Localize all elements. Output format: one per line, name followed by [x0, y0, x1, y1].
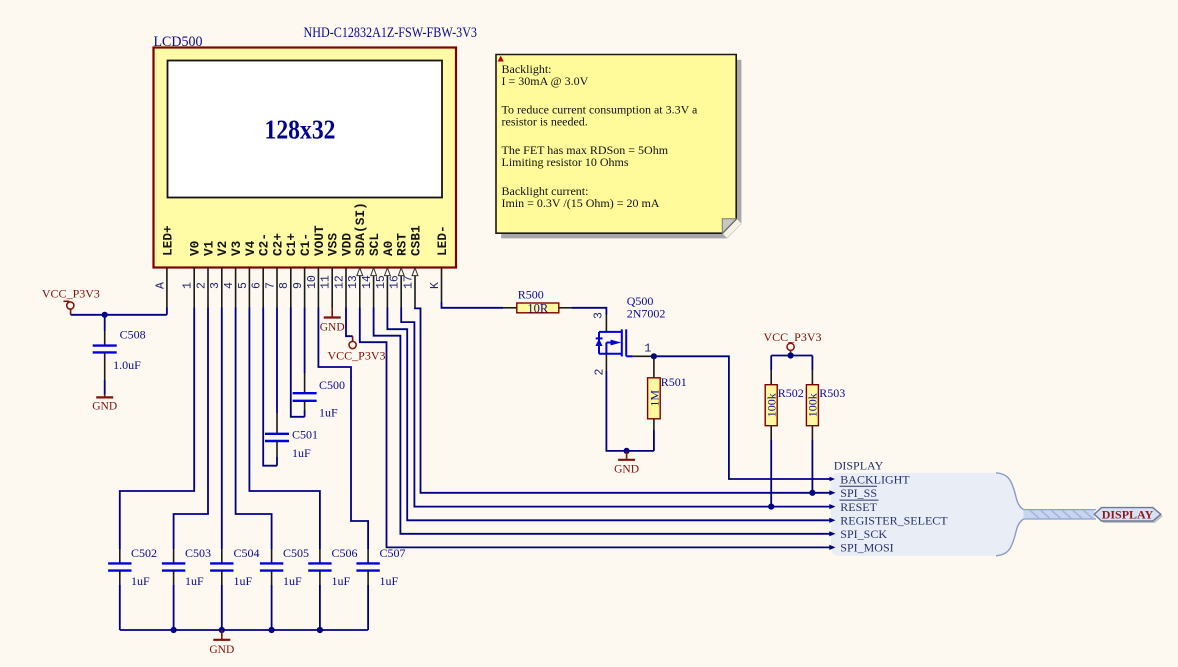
- svg-text:1uF: 1uF: [131, 574, 150, 588]
- pin K LED-: [429, 225, 450, 302]
- harness entry SPI_SCK: [829, 527, 887, 541]
- wire RST to RESET: [401, 308, 830, 507]
- svg-text:GND: GND: [614, 464, 639, 476]
- node R502 RESET junction: [768, 504, 774, 510]
- svg-text:10R: 10R: [527, 302, 549, 316]
- svg-text:C504: C504: [234, 546, 260, 560]
- svg-text:6: 6: [251, 282, 264, 289]
- ground GND bus: [209, 630, 234, 656]
- note N1 backlight text: [496, 55, 741, 239]
- wire CSB1 to SPI_SS: [415, 308, 830, 493]
- pin A LED+: [154, 225, 175, 308]
- capacitor C501: [265, 428, 318, 461]
- resistor R500: [503, 287, 571, 315]
- wire V2 to C504: [221, 308, 223, 550]
- capacitor C506: [308, 546, 357, 630]
- svg-text:A: A: [154, 282, 167, 289]
- svg-text:C1-: C1-: [298, 233, 313, 256]
- svg-text:RESET: RESET: [840, 500, 877, 514]
- svg-text:10: 10: [306, 275, 319, 289]
- wire C508 bottom: [104, 352, 106, 394]
- svg-text:SPI_SCK: SPI_SCK: [840, 527, 887, 541]
- capacitor C503: [162, 546, 211, 630]
- svg-text:1uF: 1uF: [185, 574, 204, 588]
- node gate junction 1: [651, 353, 657, 359]
- wire C2- to C501 bottom: [263, 308, 277, 466]
- capacitor C507: [356, 546, 405, 630]
- svg-text:SDA(SI): SDA(SI): [353, 202, 368, 256]
- power VCC_P3V3 at R502 R503: [764, 330, 822, 356]
- svg-text:resistor is needed.: resistor is needed.: [502, 115, 588, 129]
- svg-text:C2-: C2-: [257, 233, 272, 256]
- svg-text:13: 13: [347, 275, 360, 289]
- svg-text:1uF: 1uF: [283, 574, 302, 588]
- svg-text:C1+: C1+: [284, 233, 299, 256]
- svg-text:C508: C508: [120, 327, 146, 341]
- svg-text:3: 3: [209, 282, 222, 289]
- svg-text:1uF: 1uF: [292, 446, 311, 460]
- capacitor C508: [93, 327, 146, 372]
- svg-text:100k: 100k: [764, 393, 778, 417]
- svg-text:VCC_P3V3: VCC_P3V3: [328, 349, 386, 363]
- harness entry REGISTER_SELECT: [829, 514, 948, 528]
- svg-text:1uF: 1uF: [380, 574, 399, 588]
- svg-text:15: 15: [375, 275, 388, 289]
- svg-text:16: 16: [389, 275, 402, 289]
- wire VCC to R502 R503 tops: [771, 355, 812, 357]
- svg-text:C503: C503: [185, 546, 211, 560]
- harness connector DISPLAY shadow: [1096, 510, 1163, 523]
- wire gate to BACKLIGHT: [654, 356, 830, 479]
- svg-text:1uF: 1uF: [332, 574, 351, 588]
- svg-text:GND: GND: [92, 401, 117, 413]
- svg-text:C505: C505: [283, 546, 309, 560]
- node VCC junction: [788, 352, 794, 358]
- ground GND Q500: [614, 451, 639, 476]
- wire C2+ to C501 top: [276, 308, 278, 434]
- svg-text:LCD500: LCD500: [154, 34, 203, 50]
- note N1 shadow: [501, 60, 741, 239]
- svg-text:VOUT: VOUT: [312, 225, 327, 256]
- pin 1 V0: [182, 241, 203, 308]
- wire VOUT to C507: [318, 308, 368, 550]
- svg-text:CSB1: CSB1: [408, 225, 423, 256]
- power VCC_P3V3 left: [42, 286, 100, 315]
- svg-text:128x32: 128x32: [265, 115, 336, 145]
- pin 2 V1: [195, 240, 216, 307]
- svg-text:C502: C502: [131, 546, 157, 560]
- pin 13 SDA(SI) with input arrow: [347, 202, 368, 307]
- svg-text:R503: R503: [819, 386, 845, 400]
- svg-text:V2: V2: [215, 241, 230, 256]
- wire ground bus: [120, 629, 368, 631]
- wire C1+ to C500 bottom: [291, 308, 305, 417]
- svg-text:C2+: C2+: [270, 233, 285, 256]
- svg-text:GND: GND: [209, 644, 234, 656]
- svg-text:C507: C507: [380, 546, 406, 560]
- node junction C508/VCC: [102, 312, 108, 318]
- svg-text:2N7002: 2N7002: [627, 307, 666, 321]
- svg-text:R500: R500: [518, 287, 544, 301]
- wire R500 to Q500 drain: [571, 308, 606, 315]
- svg-text:12: 12: [333, 275, 346, 289]
- wire SDA(SI) to SPI_MOSI: [360, 308, 830, 548]
- pin 12 VDD: [333, 233, 354, 308]
- pin 14 SCL with input arrow: [361, 233, 382, 308]
- wire pin A stub: [166, 308, 168, 315]
- svg-text:V4: V4: [243, 240, 258, 256]
- pin 6 C2-: [251, 233, 272, 308]
- wire Q500 source to GND: [606, 371, 654, 451]
- pin 10 VOUT: [306, 225, 327, 308]
- svg-text:NHD-C12832A1Z-FSW-FBW-3V3: NHD-C12832A1Z-FSW-FBW-3V3: [304, 25, 478, 41]
- svg-text:VCC_P3V3: VCC_P3V3: [42, 286, 100, 300]
- capacitor C504: [210, 546, 259, 630]
- svg-text:V3: V3: [229, 240, 244, 256]
- svg-text:7: 7: [264, 282, 277, 289]
- pin 4 V3: [223, 240, 244, 307]
- wire VDD to VCC: [346, 308, 353, 337]
- node bus C504: [219, 627, 225, 633]
- pin 7 C2+: [264, 233, 285, 308]
- wire V3 to C505: [236, 308, 272, 550]
- resistor R503: [806, 356, 846, 493]
- svg-text:17: 17: [402, 275, 415, 289]
- svg-text:V0: V0: [188, 241, 203, 256]
- resistor R501: [647, 356, 687, 451]
- node R503 SPI_SS junction: [809, 490, 815, 496]
- wire A0 to REGISTER_SELECT: [387, 308, 830, 521]
- svg-text:SPI_SS: SPI_SS: [840, 486, 877, 500]
- harness entry SPI_SS: [829, 486, 878, 500]
- pin 17 CSB1 with input arrow: [402, 225, 423, 308]
- pin 15 A0 with input arrow: [375, 241, 396, 308]
- svg-text:A0: A0: [381, 241, 396, 256]
- pin 9 C1-: [292, 233, 313, 308]
- capacitor C502: [108, 546, 157, 630]
- wire C508 top: [104, 315, 106, 331]
- svg-text:1: 1: [182, 282, 195, 289]
- svg-text:RST: RST: [395, 233, 410, 256]
- svg-text:Imin = 0.3V /(15 Ohm) = 20 mA: Imin = 0.3V /(15 Ohm) = 20 mA: [502, 196, 660, 210]
- svg-text:GND: GND: [320, 322, 345, 334]
- svg-text:1uF: 1uF: [319, 406, 338, 420]
- harness connector DISPLAY: [1094, 508, 1161, 522]
- svg-text:14: 14: [361, 275, 374, 289]
- node bus C506: [317, 627, 323, 633]
- wire V1 to C503: [174, 308, 208, 550]
- svg-text:SCL: SCL: [367, 233, 382, 256]
- svg-text:1: 1: [644, 343, 651, 356]
- wire K to R500: [442, 302, 504, 308]
- transistor Q500 2N7002: [593, 294, 666, 376]
- wire V4 to C506: [249, 308, 320, 550]
- svg-text:1uF: 1uF: [234, 574, 253, 588]
- svg-text:2: 2: [195, 282, 208, 289]
- capacitor C500: [293, 378, 345, 420]
- svg-text:R502: R502: [778, 386, 804, 400]
- svg-text:C500: C500: [319, 378, 345, 392]
- svg-text:9: 9: [292, 282, 305, 289]
- svg-text:C501: C501: [292, 428, 318, 442]
- wire C501 bottom stub: [276, 441, 278, 466]
- harness cable band: [1024, 510, 1097, 519]
- svg-text:5: 5: [237, 282, 250, 289]
- svg-text:K: K: [429, 282, 442, 289]
- svg-text:3: 3: [593, 312, 606, 319]
- svg-text:BACKLIGHT: BACKLIGHT: [840, 472, 910, 486]
- svg-text:DISPLAY: DISPLAY: [834, 459, 884, 473]
- svg-text:1.0uF: 1.0uF: [113, 358, 141, 372]
- ground GND C508: [92, 395, 117, 413]
- svg-text:2: 2: [594, 369, 607, 376]
- node source junction: [624, 448, 630, 454]
- svg-text:C506: C506: [332, 546, 358, 560]
- svg-text:1M: 1M: [647, 390, 661, 407]
- svg-text:8: 8: [278, 282, 291, 289]
- svg-text:11: 11: [320, 275, 333, 289]
- svg-text:100k: 100k: [806, 393, 820, 417]
- capacitor C505: [260, 546, 309, 630]
- pin 8 C1+: [278, 233, 299, 308]
- svg-text:SPI_MOSI: SPI_MOSI: [840, 541, 893, 555]
- harness entry RESET: [829, 500, 877, 514]
- wire C1- to C500 top: [304, 308, 306, 394]
- pin 3 V2: [209, 241, 230, 308]
- svg-text:R501: R501: [661, 375, 687, 389]
- resistor R502: [764, 356, 804, 507]
- svg-text:4: 4: [223, 282, 236, 289]
- svg-text:VCC_P3V3: VCC_P3V3: [764, 330, 822, 344]
- node bus C503: [171, 627, 177, 633]
- wire C500 bottom stub: [304, 401, 306, 417]
- wire V0 to C502: [120, 308, 194, 550]
- harness entry SPI_MOSI: [829, 541, 893, 555]
- pin 11 VSS: [320, 233, 341, 308]
- svg-text:DISPLAY: DISPLAY: [1102, 508, 1154, 522]
- LCD500 component body: [154, 48, 457, 268]
- wire SCL to SPI_SCK: [374, 308, 830, 534]
- pin 16 RST with input arrow: [389, 233, 410, 308]
- svg-text:V1: V1: [201, 240, 216, 256]
- svg-text:Limiting resistor 10 Ohms: Limiting resistor 10 Ohms: [502, 155, 629, 169]
- pin 5 V4: [237, 240, 258, 307]
- svg-text:VDD: VDD: [339, 233, 354, 256]
- harness container DISPLAY: [831, 473, 1024, 556]
- svg-text:VSS: VSS: [326, 233, 341, 256]
- svg-text:LED+: LED+: [160, 225, 175, 256]
- note marker triangle: [498, 56, 504, 62]
- svg-text:I = 30mA @ 3.0V: I = 30mA @ 3.0V: [502, 74, 589, 88]
- svg-text:LED-: LED-: [435, 225, 450, 256]
- harness entry BACKLIGHT: [830, 472, 911, 486]
- wire VCC to pin A: [71, 314, 167, 316]
- svg-text:REGISTER_SELECT: REGISTER_SELECT: [840, 514, 948, 528]
- power VCC_P3V3 at VDD: [328, 336, 386, 363]
- ground GND VSS pin11: [320, 308, 345, 334]
- node bus C505: [269, 627, 275, 633]
